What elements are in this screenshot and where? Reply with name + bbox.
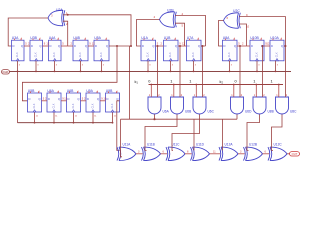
wires Q-to-D chain LFSR-A xyxy=(24,42,95,46)
U2C input pin numbers xyxy=(246,13,250,29)
wire bus drop to U11D top input xyxy=(193,119,195,150)
AND gate U8B xyxy=(253,84,274,114)
D flip-flop U9B xyxy=(106,89,120,112)
net label k1 coefficient 1 (a) xyxy=(170,79,172,84)
svg-text:D: D xyxy=(29,97,31,101)
svg-text:3: 3 xyxy=(37,65,39,67)
svg-text:CLK: CLK xyxy=(111,103,114,108)
wires row-2 clock stubs xyxy=(34,112,117,124)
net label k2 coefficient 0 xyxy=(235,79,238,84)
svg-text:U8A: U8A xyxy=(223,36,230,40)
svg-text:CLK: CLK xyxy=(35,52,38,57)
svg-text:Q: Q xyxy=(38,97,40,101)
svg-text:U4A: U4A xyxy=(49,36,56,40)
svg-text:3: 3 xyxy=(240,151,242,154)
U2B input pin numbers xyxy=(182,12,184,28)
svg-text:Q: Q xyxy=(97,97,99,101)
svg-text:D: D xyxy=(142,44,144,48)
svg-text:D: D xyxy=(224,44,226,48)
svg-text:CLK: CLK xyxy=(33,103,36,108)
wire U1B Q tap to AND input xyxy=(179,45,181,97)
svg-text:U11C: U11C xyxy=(172,142,181,146)
svg-text:Q: Q xyxy=(77,97,79,101)
wire U6D output to lower bus xyxy=(236,115,238,120)
svg-text:U5B: U5B xyxy=(28,89,35,93)
svg-text:Q: Q xyxy=(175,44,177,48)
svg-text:U12A: U12A xyxy=(225,142,234,146)
net label k2 coefficient 1 (b) xyxy=(271,79,273,84)
wire U2A top input from Q5 tap xyxy=(63,15,131,46)
D flip-flop U9A xyxy=(86,89,100,112)
svg-text:0: 0 xyxy=(148,79,151,84)
svg-text:4: 4 xyxy=(154,15,156,19)
svg-text:Q: Q xyxy=(234,44,236,48)
wires Q-to-D chain LFSR-B xyxy=(156,42,187,46)
svg-text:U10B: U10B xyxy=(250,36,259,40)
svg-text:U9B: U9B xyxy=(106,89,113,93)
svg-text:2: 2 xyxy=(161,42,163,46)
XOR gate U11B xyxy=(142,142,161,160)
row-2 clock bus wire xyxy=(18,122,113,124)
svg-text:0: 0 xyxy=(235,79,238,84)
net label k2 xyxy=(220,79,224,84)
svg-text:11: 11 xyxy=(75,116,78,118)
svg-text:5: 5 xyxy=(157,42,159,46)
D flip-flop U1B xyxy=(164,36,179,61)
svg-text:Q: Q xyxy=(198,44,200,48)
D flip-flop U7A xyxy=(187,36,202,61)
svg-text:U4B: U4B xyxy=(73,36,80,40)
XOR gate U11A xyxy=(117,142,136,160)
svg-text:U1B: U1B xyxy=(164,36,171,40)
D flip-flop U4A xyxy=(49,36,62,61)
svg-text:D: D xyxy=(188,44,190,48)
svg-text:D: D xyxy=(107,97,109,101)
svg-text:CLK: CLK xyxy=(72,103,75,108)
XOR gate U2C (LFSR-C feedback) xyxy=(224,9,241,28)
net label k1 xyxy=(135,79,139,84)
svg-text:2: 2 xyxy=(71,42,73,46)
U2A input pin numbers xyxy=(66,11,68,26)
svg-text:U10A: U10A xyxy=(270,36,279,40)
svg-text:D: D xyxy=(74,44,76,48)
svg-text:5: 5 xyxy=(182,24,184,28)
svg-text:Q: Q xyxy=(21,44,23,48)
svg-text:Q: Q xyxy=(106,44,108,48)
svg-text:3: 3 xyxy=(82,65,84,67)
svg-text:6: 6 xyxy=(163,151,165,154)
wire XOR chain output xyxy=(287,153,290,155)
svg-text:11: 11 xyxy=(55,116,58,118)
svg-text:Q: Q xyxy=(152,44,154,48)
svg-text:9: 9 xyxy=(44,42,46,46)
svg-text:3: 3 xyxy=(258,65,260,67)
svg-text:Q: Q xyxy=(281,44,283,48)
svg-text:3: 3 xyxy=(231,65,233,67)
AND gate U6D xyxy=(231,84,253,114)
wire U2C bottom input tap xyxy=(239,24,247,46)
svg-text:Q: Q xyxy=(58,44,60,48)
wire row-2 Q5 output to XOR U11A xyxy=(117,101,120,151)
XOR gate U2B (LFSR-B feedback) xyxy=(154,9,177,28)
wire U6A output to lower bus xyxy=(154,115,156,120)
svg-text:U1A: U1A xyxy=(141,36,148,40)
svg-text:CLK: CLK xyxy=(147,52,150,57)
D flip-flop U3A xyxy=(12,36,25,61)
svg-text:3: 3 xyxy=(172,65,174,67)
svg-text:3: 3 xyxy=(56,65,58,67)
wire U2C top input from Q tap xyxy=(239,17,286,46)
svg-text:D: D xyxy=(50,44,52,48)
wire Q5 long vertical to lower bus xyxy=(129,46,131,119)
svg-text:11: 11 xyxy=(36,116,39,118)
svg-text:CLK: CLK xyxy=(169,52,172,57)
svg-text:D: D xyxy=(48,97,50,101)
svg-text:U5A: U5A xyxy=(94,36,101,40)
wire clock drop to row-2 bus xyxy=(17,71,19,122)
svg-text:D: D xyxy=(95,44,97,48)
svg-text:U9A: U9A xyxy=(86,89,93,93)
D flip-flop U3B xyxy=(30,36,43,61)
svg-text:3: 3 xyxy=(195,65,197,67)
svg-text:3: 3 xyxy=(19,65,21,67)
svg-text:D: D xyxy=(271,44,273,48)
XOR gate U11D xyxy=(191,142,210,160)
AND gate U6A xyxy=(148,84,170,114)
svg-text:U6B: U6B xyxy=(67,89,74,93)
wires XOR chain xyxy=(136,151,269,154)
OUT output port xyxy=(290,152,300,157)
wire U6C output to U11C xyxy=(172,115,200,151)
CLK input port xyxy=(2,70,10,75)
svg-text:3: 3 xyxy=(149,65,151,67)
svg-text:D: D xyxy=(13,44,15,48)
svg-text:D: D xyxy=(31,44,33,48)
svg-text:CLK: CLK xyxy=(92,103,95,108)
svg-text:U3B: U3B xyxy=(30,36,37,40)
wire U2B bottom input tap xyxy=(175,23,185,46)
D flip-flop U5A xyxy=(94,36,109,61)
svg-text:D: D xyxy=(68,97,70,101)
svg-text:Q: Q xyxy=(85,44,87,48)
svg-text:8: 8 xyxy=(187,151,189,154)
svg-text:D: D xyxy=(165,44,167,48)
svg-text:6: 6 xyxy=(265,151,267,154)
svg-text:1: 1 xyxy=(170,79,172,84)
wire U7A Q extension xyxy=(201,45,206,47)
svg-text:11: 11 xyxy=(94,116,97,118)
svg-text:2: 2 xyxy=(242,42,244,46)
wire Q5 branch down to row-2 D input xyxy=(22,46,117,101)
svg-text:k₂: k₂ xyxy=(220,79,224,84)
svg-text:12: 12 xyxy=(267,42,270,46)
svg-text:U11B: U11B xyxy=(147,142,155,146)
svg-text:1: 1 xyxy=(189,79,191,84)
svg-text:11: 11 xyxy=(114,116,117,118)
svg-text:U2B: U2B xyxy=(167,9,174,13)
svg-text:12: 12 xyxy=(182,42,185,46)
D flip-flop U6B xyxy=(67,89,81,112)
svg-text:CLK: CLK xyxy=(256,52,259,57)
svg-text:CLK: CLK xyxy=(276,52,279,57)
svg-text:U6D: U6D xyxy=(245,110,252,114)
AND gate U6C xyxy=(193,84,215,114)
svg-text:CLK: CLK xyxy=(192,52,195,57)
svg-text:U6A: U6A xyxy=(163,110,170,114)
D flip-flop U4B xyxy=(73,36,88,61)
svg-text:1: 1 xyxy=(253,79,255,84)
svg-text:U8C: U8C xyxy=(290,110,297,114)
svg-text:9: 9 xyxy=(179,42,181,46)
AND gate U8C xyxy=(276,84,298,114)
wire bus drop to U11A bottom input xyxy=(121,119,123,157)
svg-text:U11D: U11D xyxy=(196,142,205,146)
wire U2C output to D of U6A xyxy=(219,21,224,47)
wire U10B Q tap to AND input xyxy=(262,45,264,97)
net label k2 coefficient 1 (a) xyxy=(253,79,255,84)
AND gate U6B xyxy=(171,84,192,114)
svg-text:3: 3 xyxy=(103,65,105,67)
svg-text:5: 5 xyxy=(25,42,27,46)
wire U1A Q tap to AND input xyxy=(157,45,159,97)
svg-text:1: 1 xyxy=(271,79,273,84)
D flip-flop U5B xyxy=(28,89,42,112)
svg-text:Q: Q xyxy=(39,44,41,48)
wire U8C output to U12C xyxy=(272,115,283,151)
D flip-flop U1A xyxy=(141,36,156,61)
net label k1 coefficient 0 xyxy=(148,79,151,84)
svg-text:U6A: U6A xyxy=(47,89,54,93)
svg-text:11: 11 xyxy=(213,151,216,154)
XOR gate U11C xyxy=(166,142,185,160)
svg-text:CLK: CLK xyxy=(16,52,19,57)
svg-text:U2C: U2C xyxy=(233,9,240,13)
wire U2A output to D of U3A xyxy=(8,18,48,46)
wire bus drop to U12A top input xyxy=(222,119,224,150)
svg-text:U3A: U3A xyxy=(12,36,19,40)
svg-text:OUT: OUT xyxy=(292,152,298,156)
D flip-flop U8A xyxy=(223,36,238,61)
svg-text:k₁: k₁ xyxy=(135,79,139,84)
D flip-flop U10A xyxy=(270,36,284,61)
svg-text:U7A: U7A xyxy=(187,36,194,40)
svg-text:U12B: U12B xyxy=(249,142,257,146)
svg-text:3: 3 xyxy=(51,14,53,18)
wire U6B output to U11B xyxy=(145,115,177,151)
wire Q5 output node (LFSR-A) xyxy=(109,45,132,47)
svg-text:CLK: CLK xyxy=(53,52,56,57)
svg-text:CLK: CLK xyxy=(2,70,9,74)
lower bus wire xyxy=(121,118,238,120)
wires Q-to-D chain LFSR-C xyxy=(237,42,270,46)
svg-text:U2A: U2A xyxy=(56,8,63,12)
svg-text:CLK: CLK xyxy=(79,52,82,57)
wire U2B output to D of U4A xyxy=(137,20,160,47)
svg-text:5: 5 xyxy=(62,42,64,46)
wire U2A bottom input tap from Q3 node xyxy=(63,14,69,46)
svg-text:U8B: U8B xyxy=(268,110,274,114)
wire U10A Q tap to AND input xyxy=(285,46,287,97)
svg-text:U12C: U12C xyxy=(274,142,283,146)
svg-text:D: D xyxy=(251,44,253,48)
svg-text:5: 5 xyxy=(238,42,240,46)
svg-text:D: D xyxy=(87,97,89,101)
svg-text:3: 3 xyxy=(277,65,279,67)
wire U10A Q extension xyxy=(284,45,287,47)
wire U2B top input from Q tap xyxy=(175,16,206,47)
svg-text:CLK: CLK xyxy=(228,52,231,57)
XOR gate U12A xyxy=(219,142,238,160)
svg-text:3: 3 xyxy=(138,151,140,154)
svg-text:Q: Q xyxy=(58,97,60,101)
clock bus wire xyxy=(10,70,292,72)
wires row-1 clock stubs xyxy=(17,61,279,73)
svg-text:U11A: U11A xyxy=(123,142,132,146)
net label k1 coefficient 1 (b) xyxy=(189,79,191,84)
svg-text:U6C: U6C xyxy=(208,110,215,114)
svg-text:CLK: CLK xyxy=(100,52,103,57)
XOR gate U2A (LFSR-A feedback) xyxy=(48,8,65,26)
coefficient rail wire xyxy=(149,84,284,86)
svg-text:6: 6 xyxy=(227,16,229,20)
svg-text:U6B: U6B xyxy=(185,110,191,114)
XOR gate U12B xyxy=(244,142,263,160)
wire U7A Q tap to AND input xyxy=(202,45,204,97)
D flip-flop U6A xyxy=(47,89,61,112)
XOR gate U12C xyxy=(268,142,287,160)
D flip-flop U10B xyxy=(250,36,264,61)
svg-text:CLK: CLK xyxy=(53,103,56,108)
wires Q-to-D chain row-2 xyxy=(42,96,107,100)
wire U8B output to U12B xyxy=(247,115,260,151)
wire U8A Q tap to AND input xyxy=(239,45,241,97)
